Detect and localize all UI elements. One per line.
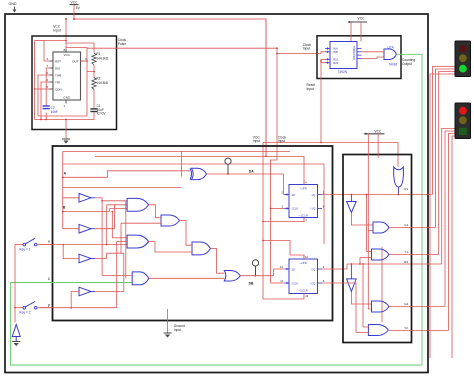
wire (11, 282, 133, 284)
wire buf1 out r (95, 197, 102, 199)
resistor R2 144.3kOhm (92, 78, 96, 90)
wire y entry (40, 307, 117, 309)
svg-text:~2Q: ~2Q (310, 281, 316, 285)
wire x to buf3 (63, 245, 79, 259)
svg-text:VCC: VCC (374, 129, 382, 133)
pin QC (357, 54, 362, 56)
traffic light X2 (red on) (455, 103, 471, 139)
svg-text:GND: GND (9, 2, 17, 6)
wire reset to R1 or-gate (397, 143, 399, 168)
wire buf3 up (106, 253, 108, 258)
svg-text:Y1: Y1 (404, 250, 408, 254)
AND gate U11 (161, 215, 180, 226)
wire (73, 5, 75, 19)
wire buf1 out (91, 197, 95, 199)
svg-text:DA: DA (249, 170, 254, 174)
wire reset down (320, 61, 322, 143)
wire R2 net (347, 263, 442, 265)
wire 2q tap (322, 282, 356, 284)
wire QB to U7A (362, 51, 385, 53)
wire reset into logic box (262, 143, 264, 300)
svg-text:Input: Input (303, 47, 310, 51)
svg-text:10: 10 (305, 255, 308, 259)
AND gate U9 (3-in) (127, 235, 149, 248)
svg-text:7492N: 7492N (338, 70, 348, 74)
digital source arrow (12, 325, 20, 337)
pin 3 OUT (81, 60, 85, 62)
pin 2 TRI (50, 81, 54, 83)
wire buf4 out (91, 291, 95, 293)
wire interior v382 (381, 247, 383, 322)
svg-text:R2: R2 (404, 260, 408, 264)
svg-text:y: y (48, 303, 50, 307)
svg-text:10nF: 10nF (51, 110, 58, 114)
wire xor lower input (181, 151, 183, 176)
wire Y2 riser (448, 134, 455, 331)
wire R2 riser (442, 129, 455, 265)
buffer U4 (79, 254, 91, 263)
counter IC 7492N U? (330, 42, 357, 69)
svg-text:~2CLR: ~2CLR (298, 289, 308, 293)
svg-text:QC: QC (352, 53, 356, 57)
wire h151 (63, 150, 290, 152)
svg-text:QB: QB (352, 49, 356, 53)
wire buf3 out (91, 258, 95, 260)
wire (15, 244, 23, 246)
wire and2 in1 (112, 237, 127, 239)
combinational logic box (53, 146, 333, 321)
wire clk to 2CLK (271, 282, 285, 284)
wire light1 common (430, 74, 455, 358)
wire buf2 riser (114, 205, 116, 229)
svg-text:Input: Input (53, 28, 60, 32)
wire inv1 in (350, 195, 352, 202)
wire THR leg (38, 75, 50, 116)
pin 6 (FF1 ~Q) (318, 207, 323, 209)
wire G1 riser (435, 69, 455, 228)
wire TRI leg (41, 82, 50, 120)
wire out-cap (86, 72, 88, 117)
svg-text:U7A: U7A (387, 45, 394, 49)
wire (11, 283, 423, 366)
pin 3 (FF1 CLK) (287, 207, 289, 210)
svg-text:2CLK: 2CLK (292, 281, 299, 285)
wire CON tap (35, 88, 50, 90)
wire v117 (116, 242, 118, 308)
wire bottom to gnd (65, 120, 67, 130)
wire v123 (123, 253, 125, 291)
probe DA (225, 158, 231, 164)
wire mid1 to mid2 (180, 221, 193, 246)
wire buf3 out r (95, 258, 107, 260)
OR gate U13 (DB) (224, 271, 240, 282)
traffic light X1 (green on) (455, 41, 471, 77)
wire x entry (40, 244, 127, 246)
wire R1 riser (432, 67, 455, 195)
wire B horizontal (63, 211, 110, 213)
wire y1 in1 (367, 251, 372, 253)
pin 5 CON (50, 88, 54, 90)
pin 9 (FF2 Q) (318, 268, 323, 270)
inverter U17 (down) (347, 202, 357, 213)
wire buf2 out r (95, 228, 115, 230)
svg-text:Key = 1: Key = 1 (20, 247, 31, 251)
svg-text:TRI: TRI (55, 80, 60, 84)
svg-text:144.3kΩ: 144.3kΩ (96, 81, 109, 85)
svg-text:OUT: OUT (72, 59, 79, 63)
svg-text:VCC: VCC (71, 0, 79, 4)
svg-text:144.3kΩ: 144.3kΩ (96, 56, 109, 60)
svg-text:THR: THR (55, 73, 62, 77)
wire y2 in2 (356, 332, 368, 334)
svg-text:Input: Input (307, 87, 314, 91)
wire to and1 in2 (107, 204, 127, 206)
pin 2 (FF1 D) (287, 193, 289, 196)
pin INA (327, 47, 329, 50)
wire or out (398, 187, 400, 195)
wire y2 in1 (363, 326, 368, 328)
svg-text:QA: QA (352, 46, 356, 50)
wire (37, 307, 53, 309)
svg-text:12: 12 (280, 265, 283, 269)
svg-text:1CLK: 1CLK (292, 207, 299, 211)
buffer U2 (79, 194, 91, 203)
svg-text:Pulse: Pulse (118, 42, 126, 46)
wire clk to INB (317, 52, 325, 54)
AND gate U19 (Y1) (372, 249, 390, 260)
pin 13 (FF2 CLR) (303, 294, 305, 298)
svg-text:2Q: 2Q (311, 268, 316, 272)
output driver box (343, 155, 412, 343)
wire and4 in1 (102, 274, 132, 276)
resistor R1 144.3kOhm (92, 53, 96, 65)
AND gate U7A 7408J (384, 49, 397, 60)
wire C2 bottom (45, 113, 47, 120)
wire G2 out (389, 306, 445, 308)
svg-text:13: 13 (305, 294, 308, 298)
capacitor C1 10uF (90, 108, 97, 110)
svg-text:1Q: 1Q (311, 193, 316, 197)
svg-text:x: x (48, 240, 50, 244)
svg-text:INB: INB (333, 50, 338, 54)
wire reset horizontal (263, 142, 398, 144)
AND gate U12 (192, 242, 211, 255)
wire v121 (120, 223, 122, 253)
svg-text:Key = 2: Key = 2 (20, 311, 31, 315)
wire Y1 riser (439, 72, 455, 255)
wire and4 to db (149, 277, 225, 279)
wire clock pulse east (117, 47, 278, 49)
pin 7 DIS (50, 67, 54, 69)
svg-text:~2PR: ~2PR (299, 261, 307, 265)
wire 2PR feed (263, 241, 304, 260)
wire trunk A-B (62, 151, 64, 229)
wire (397, 54, 423, 365)
svg-text:Input: Input (278, 139, 285, 143)
inverter U20 (down) (347, 279, 357, 292)
ground below switches (12, 341, 20, 343)
wire (65, 130, 67, 140)
wire to and1 in3 (110, 208, 128, 210)
wire Y1 out (389, 254, 439, 256)
svg-text:1: 1 (48, 277, 50, 281)
wire clock out (87, 47, 117, 50)
wire rst to 1CLR (263, 218, 304, 222)
svg-text:GND: GND (63, 95, 71, 99)
AND gate U22 (Y2) (368, 325, 388, 336)
pin QD (357, 57, 362, 59)
pin R01 (327, 58, 329, 61)
pin 1 GND (555) (65, 100, 67, 104)
wire clk to 1CLK (271, 207, 285, 209)
wire b riser (109, 209, 111, 212)
wire (14, 245, 16, 323)
svg-text:VCC: VCC (358, 17, 366, 21)
wire g2 in2 (368, 308, 371, 310)
wire y1 in2 (360, 257, 372, 259)
wire h164 (63, 163, 324, 165)
D flip-flop U14 7474 (FF1) (289, 185, 318, 218)
pin QA (357, 47, 362, 49)
wire B in buf1 (63, 197, 79, 199)
timer IC 555 (53, 52, 81, 100)
capacitor C2 10nF (43, 105, 50, 107)
AND gate U8 (3-in) (127, 198, 149, 211)
wire (15, 307, 23, 309)
svg-text:7408J: 7408J (389, 62, 398, 66)
svg-text:R1: R1 (404, 187, 408, 191)
wire mid1 in2 (121, 222, 161, 224)
wire 2Q east (322, 264, 347, 269)
D flip-flop U15 7474 (FF2) (289, 259, 318, 294)
wire h156 (95, 155, 266, 157)
pin 5 (FF1 Q) (318, 194, 323, 196)
wire vcc drop a (350, 22, 352, 42)
wire buf4 out r (95, 291, 124, 293)
wire col 106 (106, 205, 108, 245)
wire v360 (359, 258, 361, 265)
wire vcc drop b (360, 22, 362, 42)
wire buf2 out (91, 228, 95, 230)
wire g1 in2 (368, 230, 373, 232)
wire buf1 to and1 (102, 198, 127, 201)
wire QD to U7A (362, 57, 385, 58)
wire VCC to 555 (65, 19, 67, 52)
pin 4 (FF1 PR) (303, 181, 305, 185)
wire RST loop (44, 41, 66, 62)
wire mid tap (87, 61, 94, 72)
wire DB (240, 269, 284, 276)
svg-text:QD: QD (352, 56, 356, 60)
wire v356 (355, 283, 357, 333)
counting circuit box (317, 36, 401, 79)
pin 12 (FF2 D) (287, 268, 289, 271)
wire h187 (63, 186, 182, 188)
pin 6 THR (50, 74, 54, 76)
wire vcc drop c (367, 134, 369, 309)
wire (167, 309, 169, 333)
buffer U5 (79, 287, 91, 296)
wire R1-R2 junction to OUT (93, 65, 95, 78)
buffer U3 (79, 224, 91, 233)
wire inv1 out to G1 (351, 213, 373, 226)
pin 8 VCC (555) (65, 49, 67, 52)
svg-text:~1CLR: ~1CLR (298, 213, 308, 217)
svg-text:CON: CON (55, 87, 62, 91)
wire G2 riser (445, 131, 455, 307)
wire A to xor (63, 171, 190, 178)
wire mid2 to db (211, 249, 225, 274)
svg-text:DIS: DIS (55, 66, 60, 70)
wire DA (207, 174, 290, 195)
svg-text:Input: Input (174, 328, 181, 332)
wire probe stem (255, 266, 257, 276)
svg-text:IC=0V: IC=0V (97, 112, 107, 116)
wire rst to 2CLR (263, 298, 304, 300)
wire and2 in2 (117, 241, 127, 243)
wire vcc to FF1 preset (266, 156, 304, 184)
AND gate U10 (2-in) (132, 272, 149, 285)
wire and1 to mid1 (149, 205, 161, 218)
pin R02 (327, 61, 329, 64)
pin 1 (FF1 CLR) (303, 218, 305, 222)
wire v324 (323, 164, 325, 244)
wire DIS to C2 (46, 68, 49, 106)
wire OUT riser (66, 48, 87, 62)
wire buf2 in (63, 228, 79, 230)
svg-text:RST: RST (55, 59, 61, 63)
AND gate U18 (G1) (373, 222, 389, 233)
wire vcc drop d (377, 134, 379, 158)
wire v363 (362, 264, 364, 327)
svg-text:G2: G2 (404, 302, 408, 306)
wire and2 to mid2 (149, 242, 192, 253)
OR gate U16 (R1) pointing down (394, 167, 404, 187)
wire R01 R02 tie (321, 59, 325, 62)
wire col 126 (125, 201, 127, 278)
wire inv2 in (350, 264, 352, 279)
wire clock into logic box (271, 54, 278, 284)
pin INB (327, 51, 329, 54)
svg-text:~1Q: ~1Q (310, 207, 316, 211)
wire top-left (35, 40, 45, 42)
wire VCC to R1 (66, 43, 94, 53)
pin 10 (FF2 PR) (303, 255, 305, 259)
wire col 112 (111, 212, 113, 238)
wire 1Q to R1 net (322, 194, 432, 196)
wire inv2 out to G2 (351, 292, 371, 305)
probe DB (252, 260, 258, 266)
wire C1 bottom (35, 112, 95, 120)
AND gate U21 (G2) (372, 301, 390, 312)
svg-text:R02: R02 (333, 61, 339, 65)
wire VCC rail (74, 19, 266, 156)
wire v366 (366, 195, 368, 252)
pin 8 (FF2 ~Q) (318, 282, 323, 284)
svg-text:Input: Input (253, 139, 260, 143)
svg-text:DB: DB (249, 282, 254, 286)
wire light2 common (452, 136, 455, 358)
wire bottom h2 (38, 115, 87, 117)
svg-text:Output: Output (402, 62, 412, 66)
wire clock to counter (277, 48, 317, 53)
wire probe stem (227, 164, 229, 174)
XOR gate U1 (192, 168, 207, 179)
wire Y2 out (389, 330, 448, 332)
pin 11 (FF2 CLK) (287, 282, 289, 285)
svg-text:G1: G1 (404, 223, 408, 227)
wire left rail (34, 41, 36, 120)
wire buf1 down (101, 201, 103, 276)
wire (37, 244, 53, 246)
pin 4 RST (50, 60, 54, 62)
wire G1 out (389, 227, 435, 229)
svg-text:VCC: VCC (64, 53, 71, 57)
wire y to buf4 (71, 292, 79, 308)
pin QB (357, 51, 362, 53)
clock pulse generator box (32, 36, 117, 130)
wire R2 to C1 (93, 89, 95, 109)
svg-text:~1PR: ~1PR (299, 186, 307, 190)
svg-text:Y2: Y2 (404, 326, 408, 330)
wire h253 (107, 252, 124, 254)
